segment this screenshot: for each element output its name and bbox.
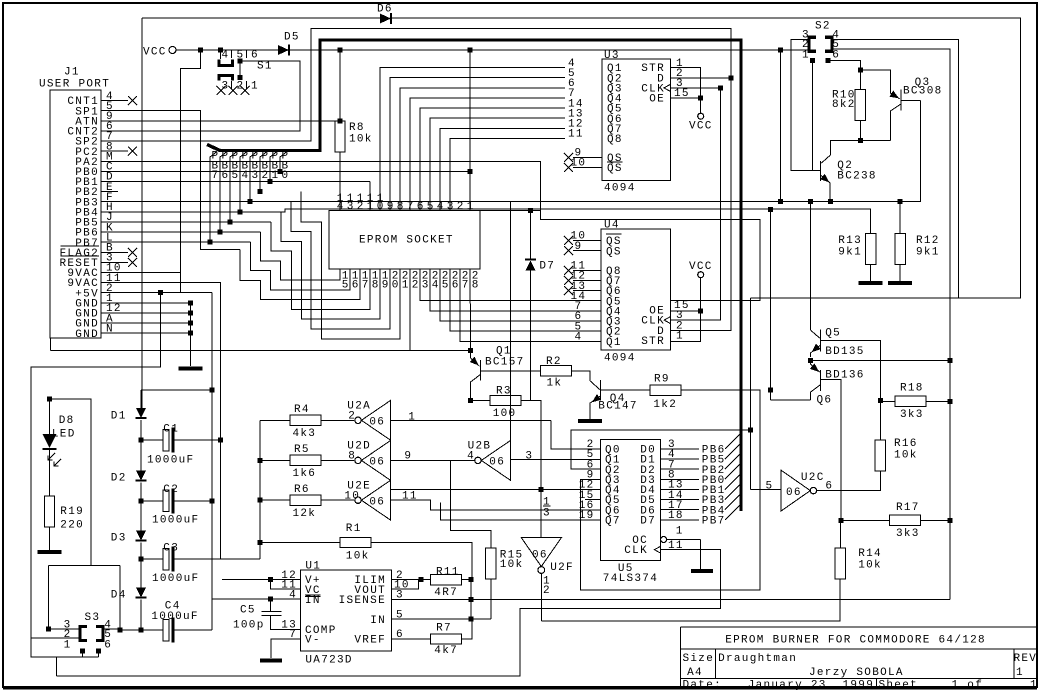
wire U5 Q0 from U2A xyxy=(551,420,601,449)
wire J1 GND row A xyxy=(118,322,191,324)
svg-text:4: 4 xyxy=(432,279,440,291)
junction GND row N xyxy=(188,331,193,336)
wire socket pin 25 to U4 row xyxy=(440,269,565,321)
svg-text:USER PORT: USER PORT xyxy=(39,79,110,91)
svg-text:U1: U1 xyxy=(305,561,321,573)
svg-text:4R7: 4R7 xyxy=(434,587,458,599)
diode D5 xyxy=(278,45,289,55)
wire C3 row to D4 xyxy=(140,559,142,587)
transistor Q4 BC147 xyxy=(599,380,601,401)
wire U1 VREF to R7 xyxy=(391,638,430,640)
svg-text:1: 1 xyxy=(251,81,259,93)
bus entry PB7 xyxy=(725,504,741,520)
resistor R16 xyxy=(875,440,885,471)
wire 9V rail top left of D6 xyxy=(142,17,380,19)
junction S1 pin4 xyxy=(218,48,223,53)
no-connect X below S1 pin1 xyxy=(241,86,250,95)
wire 9V rail left edge down to D1 xyxy=(141,18,143,408)
capacitor C3 xyxy=(141,558,163,560)
svg-text:0: 0 xyxy=(377,201,385,213)
junction R9 drive xyxy=(768,388,773,393)
capacitor C4 xyxy=(141,629,163,631)
junction x780 row201 xyxy=(778,199,783,204)
junction S3 pin4 xyxy=(117,628,122,633)
ground R12 xyxy=(888,281,912,285)
wire R7 to IN node xyxy=(461,619,471,639)
svg-text:D7: D7 xyxy=(539,261,555,273)
wire U3 Q1 to socket pin 10 xyxy=(380,68,565,210)
svg-text:1: 1 xyxy=(676,331,684,343)
bus entry PB4 xyxy=(725,494,741,510)
svg-text:V-: V- xyxy=(305,635,321,647)
svg-text:4: 4 xyxy=(437,201,445,213)
wire U2C input xyxy=(750,489,781,491)
no-connect X on RESET xyxy=(128,258,137,267)
svg-text:1: 1 xyxy=(467,201,475,213)
wire U5 D0 to net PB6 xyxy=(661,448,699,450)
wire row201 to Q5 collector xyxy=(810,202,812,331)
junction ISENSE xyxy=(468,597,473,602)
wire U4 OE/STR/VCC tie xyxy=(671,310,701,312)
svg-text:R12: R12 xyxy=(916,235,940,247)
svg-text:1: 1 xyxy=(408,411,416,423)
svg-text:1000uF: 1000uF xyxy=(152,515,199,527)
wire socket pin 26 to U4 row xyxy=(450,269,565,331)
svg-text:D8: D8 xyxy=(59,415,75,427)
junction ATN/R8 xyxy=(338,118,343,123)
inverter U2C xyxy=(781,470,810,511)
svg-text:R7: R7 xyxy=(436,623,452,635)
wire J1 9VAC-10 right xyxy=(118,272,180,274)
U5 Q5 stub xyxy=(585,499,601,501)
wire R4-R6 left chain xyxy=(259,420,261,559)
svg-text:U2F: U2F xyxy=(550,562,574,574)
wire J1 GND row 12 xyxy=(118,312,191,314)
junction PB0 on pin1 vertical xyxy=(468,169,473,174)
wire J1 PB6 row xyxy=(118,231,260,233)
resistor R11 xyxy=(430,574,461,584)
transistor Q6 BD136 xyxy=(820,370,822,391)
svg-text:4: 4 xyxy=(467,450,475,462)
no-connect X U4 pin 10 xyxy=(564,236,573,245)
wire VCC rail to D5 anode xyxy=(176,49,278,51)
svg-text:6: 6 xyxy=(452,279,460,291)
svg-text:R17: R17 xyxy=(896,502,920,514)
wire J1 RESET nc stub xyxy=(118,261,128,263)
wire Q3 base right xyxy=(901,99,921,101)
svg-text:2: 2 xyxy=(348,410,356,422)
junction VCC/+5V riser xyxy=(198,48,203,53)
wire R8 to socket pin14 xyxy=(339,152,341,210)
svg-text:1: 1 xyxy=(64,640,72,652)
svg-text:R19: R19 xyxy=(60,506,84,518)
svg-text:5: 5 xyxy=(442,279,450,291)
svg-text:VCC: VCC xyxy=(689,261,713,273)
junction U4 OE/VCC xyxy=(698,308,703,313)
S1 pin6 contact dot xyxy=(238,58,243,63)
resistor R12 xyxy=(895,234,905,265)
svg-text:BC157: BC157 xyxy=(485,357,525,369)
wire S1 pin4 stub xyxy=(220,50,222,59)
resistor R13 xyxy=(866,234,876,265)
junction U3 OE/VCC xyxy=(698,96,703,101)
ground R19 xyxy=(38,550,62,554)
svg-text:U4: U4 xyxy=(604,220,620,232)
diode D4 xyxy=(136,588,146,598)
wire cascade PB5 to socket pin xyxy=(271,222,370,310)
svg-text:C3: C3 xyxy=(163,543,179,555)
svg-text:6: 6 xyxy=(832,50,840,62)
svg-text:R11: R11 xyxy=(436,567,460,579)
IC U1 UA723D xyxy=(300,570,391,651)
wire U5 D5 to net PB3 xyxy=(661,499,699,501)
svg-text:S1: S1 xyxy=(257,61,273,73)
no-connect X U4 pin 13 xyxy=(564,286,573,295)
svg-text:6: 6 xyxy=(251,50,259,62)
junction PB3 row xyxy=(248,199,253,204)
svg-text:06: 06 xyxy=(489,457,505,469)
wire C2 row to D3 xyxy=(140,501,142,531)
wire U1 IN- row xyxy=(212,598,301,600)
svg-text:D6: D6 xyxy=(377,4,393,16)
resistor R18 xyxy=(895,396,926,406)
wire U5 D1 to net PB5 xyxy=(661,458,699,460)
wire socket pin28 to Q1 node xyxy=(469,269,472,351)
S2 pin6 contact dot xyxy=(826,58,831,63)
svg-text:A4: A4 xyxy=(687,667,703,679)
EPROM socket XS1 xyxy=(329,210,480,268)
svg-text:06: 06 xyxy=(532,550,548,562)
svg-text:Q6: Q6 xyxy=(817,395,833,407)
svg-text:Q8: Q8 xyxy=(607,134,623,146)
bus entry PB1 xyxy=(725,474,741,490)
diode D6 xyxy=(380,14,391,24)
switch S3 xyxy=(80,627,87,641)
ground J1 GND xyxy=(179,367,203,371)
svg-text:9: 9 xyxy=(387,201,395,213)
svg-text:1: 1 xyxy=(802,50,810,62)
no-connect X U4 pin 9 xyxy=(564,246,573,255)
wire J1 FLAG2 nc stub xyxy=(118,251,128,253)
bus entry PB0 xyxy=(725,464,741,480)
svg-text:10: 10 xyxy=(344,490,360,502)
junction GND row 1 xyxy=(188,300,193,305)
wire S3 pin6 stub xyxy=(98,651,100,657)
transistor Q1 BC157 xyxy=(470,351,472,358)
junction Q1 emitter xyxy=(468,348,473,353)
wire J1 GND row 1 xyxy=(118,302,191,304)
svg-text:5: 5 xyxy=(232,170,240,182)
wire U2D out to U2B in xyxy=(391,459,474,461)
junction PB7 at J1 row xyxy=(208,240,213,245)
svg-text:3: 3 xyxy=(347,201,355,213)
junction IN-/C5 xyxy=(268,597,273,602)
wire Q5 base right to R18 node xyxy=(821,340,881,400)
junction PB4 at J1 row xyxy=(238,209,243,214)
svg-text:R2: R2 xyxy=(546,356,562,368)
wire R18 node to R16 xyxy=(879,401,881,440)
svg-text:Q5: Q5 xyxy=(825,328,841,340)
svg-text:8: 8 xyxy=(348,450,356,462)
wire R10 node to Q2 collector xyxy=(831,141,861,155)
wire row565 xyxy=(49,565,120,567)
wire D4 to S3 row xyxy=(140,600,142,631)
wire R10 bottom xyxy=(859,120,861,140)
wire R17 right chain down to ISENSE row xyxy=(949,360,951,520)
svg-text:R8: R8 xyxy=(349,122,365,134)
svg-text:BC308: BC308 xyxy=(903,86,943,98)
wire Q6 base down to R17 node xyxy=(821,380,841,521)
svg-text:6: 6 xyxy=(417,201,425,213)
svg-text:2: 2 xyxy=(543,585,551,597)
wire R15 bottom to U1 IN xyxy=(490,579,492,619)
diode D1 xyxy=(136,408,146,418)
wire S1 pin6 to pin1 xyxy=(239,61,241,78)
junction R17 left / R14 xyxy=(838,518,843,523)
svg-text:3: 3 xyxy=(447,201,455,213)
wire Q6 collector row xyxy=(771,399,811,401)
svg-text:D7: D7 xyxy=(640,516,656,528)
bus entry PB5 xyxy=(725,443,741,459)
svg-text:R1: R1 xyxy=(346,523,362,535)
wire U5 D6 to net PB4 xyxy=(661,509,699,511)
svg-text:100p: 100p xyxy=(233,620,265,632)
wire socket to D7 xyxy=(480,210,541,212)
wire D7 lower to R3 lead xyxy=(530,271,532,401)
junction PB5 at J1 row xyxy=(228,219,233,224)
svg-text:4094: 4094 xyxy=(604,353,636,365)
wire cascade SP1 to socket pin xyxy=(240,249,360,299)
svg-text:3k3: 3k3 xyxy=(896,528,920,540)
wire S3 pin1 stub xyxy=(81,651,83,657)
junction C2 right xyxy=(209,498,214,503)
svg-text:06: 06 xyxy=(369,457,385,469)
svg-text:EPROM BURNER FOR COMMODORE 64/: EPROM BURNER FOR COMMODORE 64/128 xyxy=(725,634,986,646)
wire R1 left lead xyxy=(260,542,340,544)
svg-text:Date:: Date: xyxy=(683,679,723,691)
wire cascade PB2 to socket pin xyxy=(301,192,400,339)
wire PB3 row branch down to Q1 row xyxy=(510,202,512,460)
wire D8 to R19 xyxy=(49,450,51,496)
wire J1 PC2 nc stub xyxy=(118,150,128,152)
svg-text:R13: R13 xyxy=(838,235,862,247)
svg-text:UA723D: UA723D xyxy=(305,655,352,667)
svg-text:1k2: 1k2 xyxy=(653,399,677,411)
svg-text:U3: U3 xyxy=(604,50,620,62)
wire D8 branch xyxy=(50,399,92,565)
wire U1 V+/VC tie xyxy=(222,579,300,581)
junction S3/C4 row xyxy=(139,628,144,633)
wire U5 OC to ground xyxy=(699,540,701,570)
bus entry PB2 xyxy=(725,454,741,470)
wire J1 box leg xyxy=(49,338,51,351)
svg-text:9: 9 xyxy=(382,279,390,291)
no-connect X S1 pin3 xyxy=(217,86,226,95)
wire J1 PB1 row to socket pin11 drop xyxy=(118,181,370,183)
svg-text:4: 4 xyxy=(222,50,230,62)
svg-text:1 of: 1 of xyxy=(952,679,984,691)
svg-text:7: 7 xyxy=(212,170,220,182)
svg-text:Draughtman: Draughtman xyxy=(718,653,797,665)
wire net PB6 vertical xyxy=(220,152,227,233)
junction +5V riser / rect xyxy=(209,388,214,393)
junction U3 CLK xyxy=(718,85,723,90)
junction D8 top xyxy=(47,397,52,402)
wire cascade PB7 to socket pin xyxy=(250,242,350,290)
wire +5V riser x=211.8 xyxy=(211,293,213,631)
svg-text:BD135: BD135 xyxy=(825,346,865,358)
wire J1 PB7 row xyxy=(118,241,250,243)
wire U3 Q5 to socket pin 6 xyxy=(420,108,565,210)
svg-text:06: 06 xyxy=(369,497,385,509)
wire U3 Q3 to socket pin 8 xyxy=(400,88,565,210)
wire U2F output down xyxy=(540,573,542,620)
capacitor C5 xyxy=(270,599,272,611)
svg-text:QS: QS xyxy=(606,246,622,258)
svg-text:3: 3 xyxy=(252,170,260,182)
resistor R10 xyxy=(855,89,865,120)
wire U3 OE xyxy=(670,97,700,99)
svg-text:3: 3 xyxy=(525,450,533,462)
no-connect X on FLAG2 xyxy=(128,248,137,257)
svg-text:C1: C1 xyxy=(163,424,179,436)
wire net PB0 vertical xyxy=(280,152,287,172)
svg-text:BC147: BC147 xyxy=(598,401,638,413)
wire U5 D7 to net PB7 xyxy=(661,519,699,521)
svg-text:STR: STR xyxy=(641,336,665,348)
junction C3 row xyxy=(139,557,144,562)
svg-text:5: 5 xyxy=(427,201,435,213)
wire U2B input node to R15 xyxy=(451,460,491,548)
svg-text:12k: 12k xyxy=(293,508,317,520)
svg-text:1: 1 xyxy=(402,279,410,291)
wire U3 Q6 to socket pin 5 xyxy=(430,118,565,210)
svg-text:January 23, 1999: January 23, 1999 xyxy=(748,679,874,691)
svg-text:Size: Size xyxy=(683,653,715,665)
wire S2 pin1 to Q2 base row xyxy=(812,61,814,171)
IC U4 4094 xyxy=(601,229,671,350)
svg-text:1000uF: 1000uF xyxy=(151,611,198,623)
wire GND vertical to ground xyxy=(190,303,192,366)
junction Q5 collector xyxy=(808,199,813,204)
junction R18 right xyxy=(948,399,953,404)
svg-text:7: 7 xyxy=(362,279,370,291)
wire D7 upper xyxy=(530,211,532,260)
wire Q1 base to R2 xyxy=(480,370,540,372)
wire D2 to C2 row xyxy=(140,482,142,501)
junction R8 pullup xyxy=(338,48,343,53)
svg-text:8: 8 xyxy=(372,279,380,291)
resistor R7 xyxy=(430,634,461,644)
junction R1 lead xyxy=(258,540,263,545)
svg-text:C2: C2 xyxy=(163,484,179,496)
wire Q3 collector to R10 bottom xyxy=(860,140,890,142)
junction C2 row xyxy=(139,498,144,503)
junction PB6 at J1 row xyxy=(218,230,223,235)
svg-text:GND: GND xyxy=(75,329,99,341)
junction C1 row xyxy=(139,438,144,443)
svg-text:PB7: PB7 xyxy=(702,516,726,528)
svg-text:9k1: 9k1 xyxy=(838,247,862,259)
svg-text:1: 1 xyxy=(676,526,684,538)
wire row209 to Q6 collector xyxy=(770,209,772,400)
wire net PB5 vertical xyxy=(230,152,237,222)
wire U5 D4 to net PB1 xyxy=(661,489,699,491)
wire D3 to C3 row xyxy=(140,543,142,560)
LED D8 emission arrows xyxy=(48,453,55,460)
svg-text:4: 4 xyxy=(337,201,345,213)
resistor R6 xyxy=(290,495,321,505)
resistor R5 xyxy=(290,455,321,465)
wire Q3 emitter from junction xyxy=(860,70,890,93)
diode D3 xyxy=(136,531,146,541)
junction U3 D pin xyxy=(729,75,734,80)
wire ILIM/VOUT tie to R11 xyxy=(391,579,430,581)
wire R9 to U5 Q3 loop xyxy=(580,390,760,590)
wire socket pin 24 to U4 row xyxy=(430,269,565,311)
wire branch to U5 Q7 xyxy=(440,502,600,520)
transistor Q5 BD135 xyxy=(810,202,812,331)
svg-text:VREF: VREF xyxy=(354,635,386,647)
inverter U2E xyxy=(361,480,390,520)
wire cascade PB6 to socket pin xyxy=(260,232,340,280)
wire Q4 base to R9 xyxy=(600,389,650,391)
svg-text:D1: D1 xyxy=(111,411,127,423)
wire R11 node down xyxy=(470,580,472,620)
junction R10 top / Q3 emitter xyxy=(858,68,863,73)
title block frame xyxy=(681,626,1036,628)
wire D1 to C1 row xyxy=(140,420,142,440)
svg-text:D5: D5 xyxy=(284,32,300,44)
junction IN pin node xyxy=(468,617,473,622)
wire J1 PB3 row to Q3 base riser xyxy=(118,100,921,201)
junction row209 xyxy=(768,207,773,212)
wire +5V branch down-left to S3 row xyxy=(31,293,160,657)
wire U5 D2 to net PB2 xyxy=(661,468,699,470)
svg-text:R14: R14 xyxy=(858,548,882,560)
wire J1 SP1 to cascade xyxy=(118,111,240,250)
bus entry PB3 xyxy=(725,484,741,500)
wire riser to S3 pin4 node xyxy=(119,566,121,631)
wire U5 CLK route to S3 xyxy=(57,550,721,677)
wire net PB1 vertical xyxy=(270,152,277,182)
switch S2 xyxy=(809,37,816,51)
svg-text:1k6: 1k6 xyxy=(293,468,317,480)
S2 pin1 contact dot xyxy=(810,58,815,63)
wire S3 pin4 right to C4 row xyxy=(103,628,120,630)
svg-text:OE: OE xyxy=(649,94,665,106)
svg-text:S3: S3 xyxy=(85,612,101,624)
wire S2 pin3 to Q2 base xyxy=(791,40,821,171)
wire U1 ISENSE long row to R17 chain xyxy=(391,599,950,601)
wire R17 node to R14 xyxy=(839,520,841,548)
svg-text:3: 3 xyxy=(422,279,430,291)
connector J1 USER PORT xyxy=(50,90,101,338)
svg-text:7: 7 xyxy=(407,201,415,213)
junction PB3 at J1 row xyxy=(248,199,253,204)
svg-text:6: 6 xyxy=(352,279,360,291)
ground R13 xyxy=(859,281,883,285)
resistor R15 xyxy=(486,548,496,579)
IC U3 4094 xyxy=(602,59,670,181)
svg-text:C5: C5 xyxy=(240,605,256,617)
wire J1 PB4 row to R13 top xyxy=(118,209,871,234)
svg-text:6: 6 xyxy=(222,170,230,182)
junction PB4 row xyxy=(238,209,243,214)
resistor R3 xyxy=(490,395,521,405)
svg-text:1: 1 xyxy=(367,201,375,213)
junction +5V branch xyxy=(158,290,163,295)
